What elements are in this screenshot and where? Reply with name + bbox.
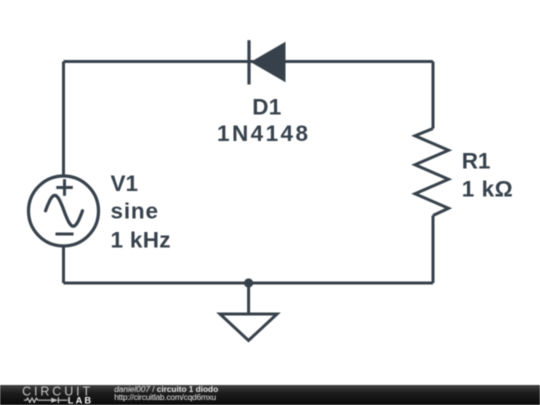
svg-text:V1: V1 — [111, 171, 139, 196]
svg-text:1 kΩ: 1 kΩ — [462, 177, 513, 202]
svg-text:sine: sine — [111, 199, 159, 224]
svg-text:R1: R1 — [462, 149, 491, 174]
svg-text:1N4148: 1N4148 — [217, 121, 308, 146]
svg-text:LAB: LAB — [68, 395, 92, 405]
svg-text:1 kHz: 1 kHz — [111, 228, 171, 253]
svg-text:D1: D1 — [252, 95, 281, 120]
svg-text:http://circuitlab.com/cqd6mxu: http://circuitlab.com/cqd6mxu — [114, 392, 216, 402]
